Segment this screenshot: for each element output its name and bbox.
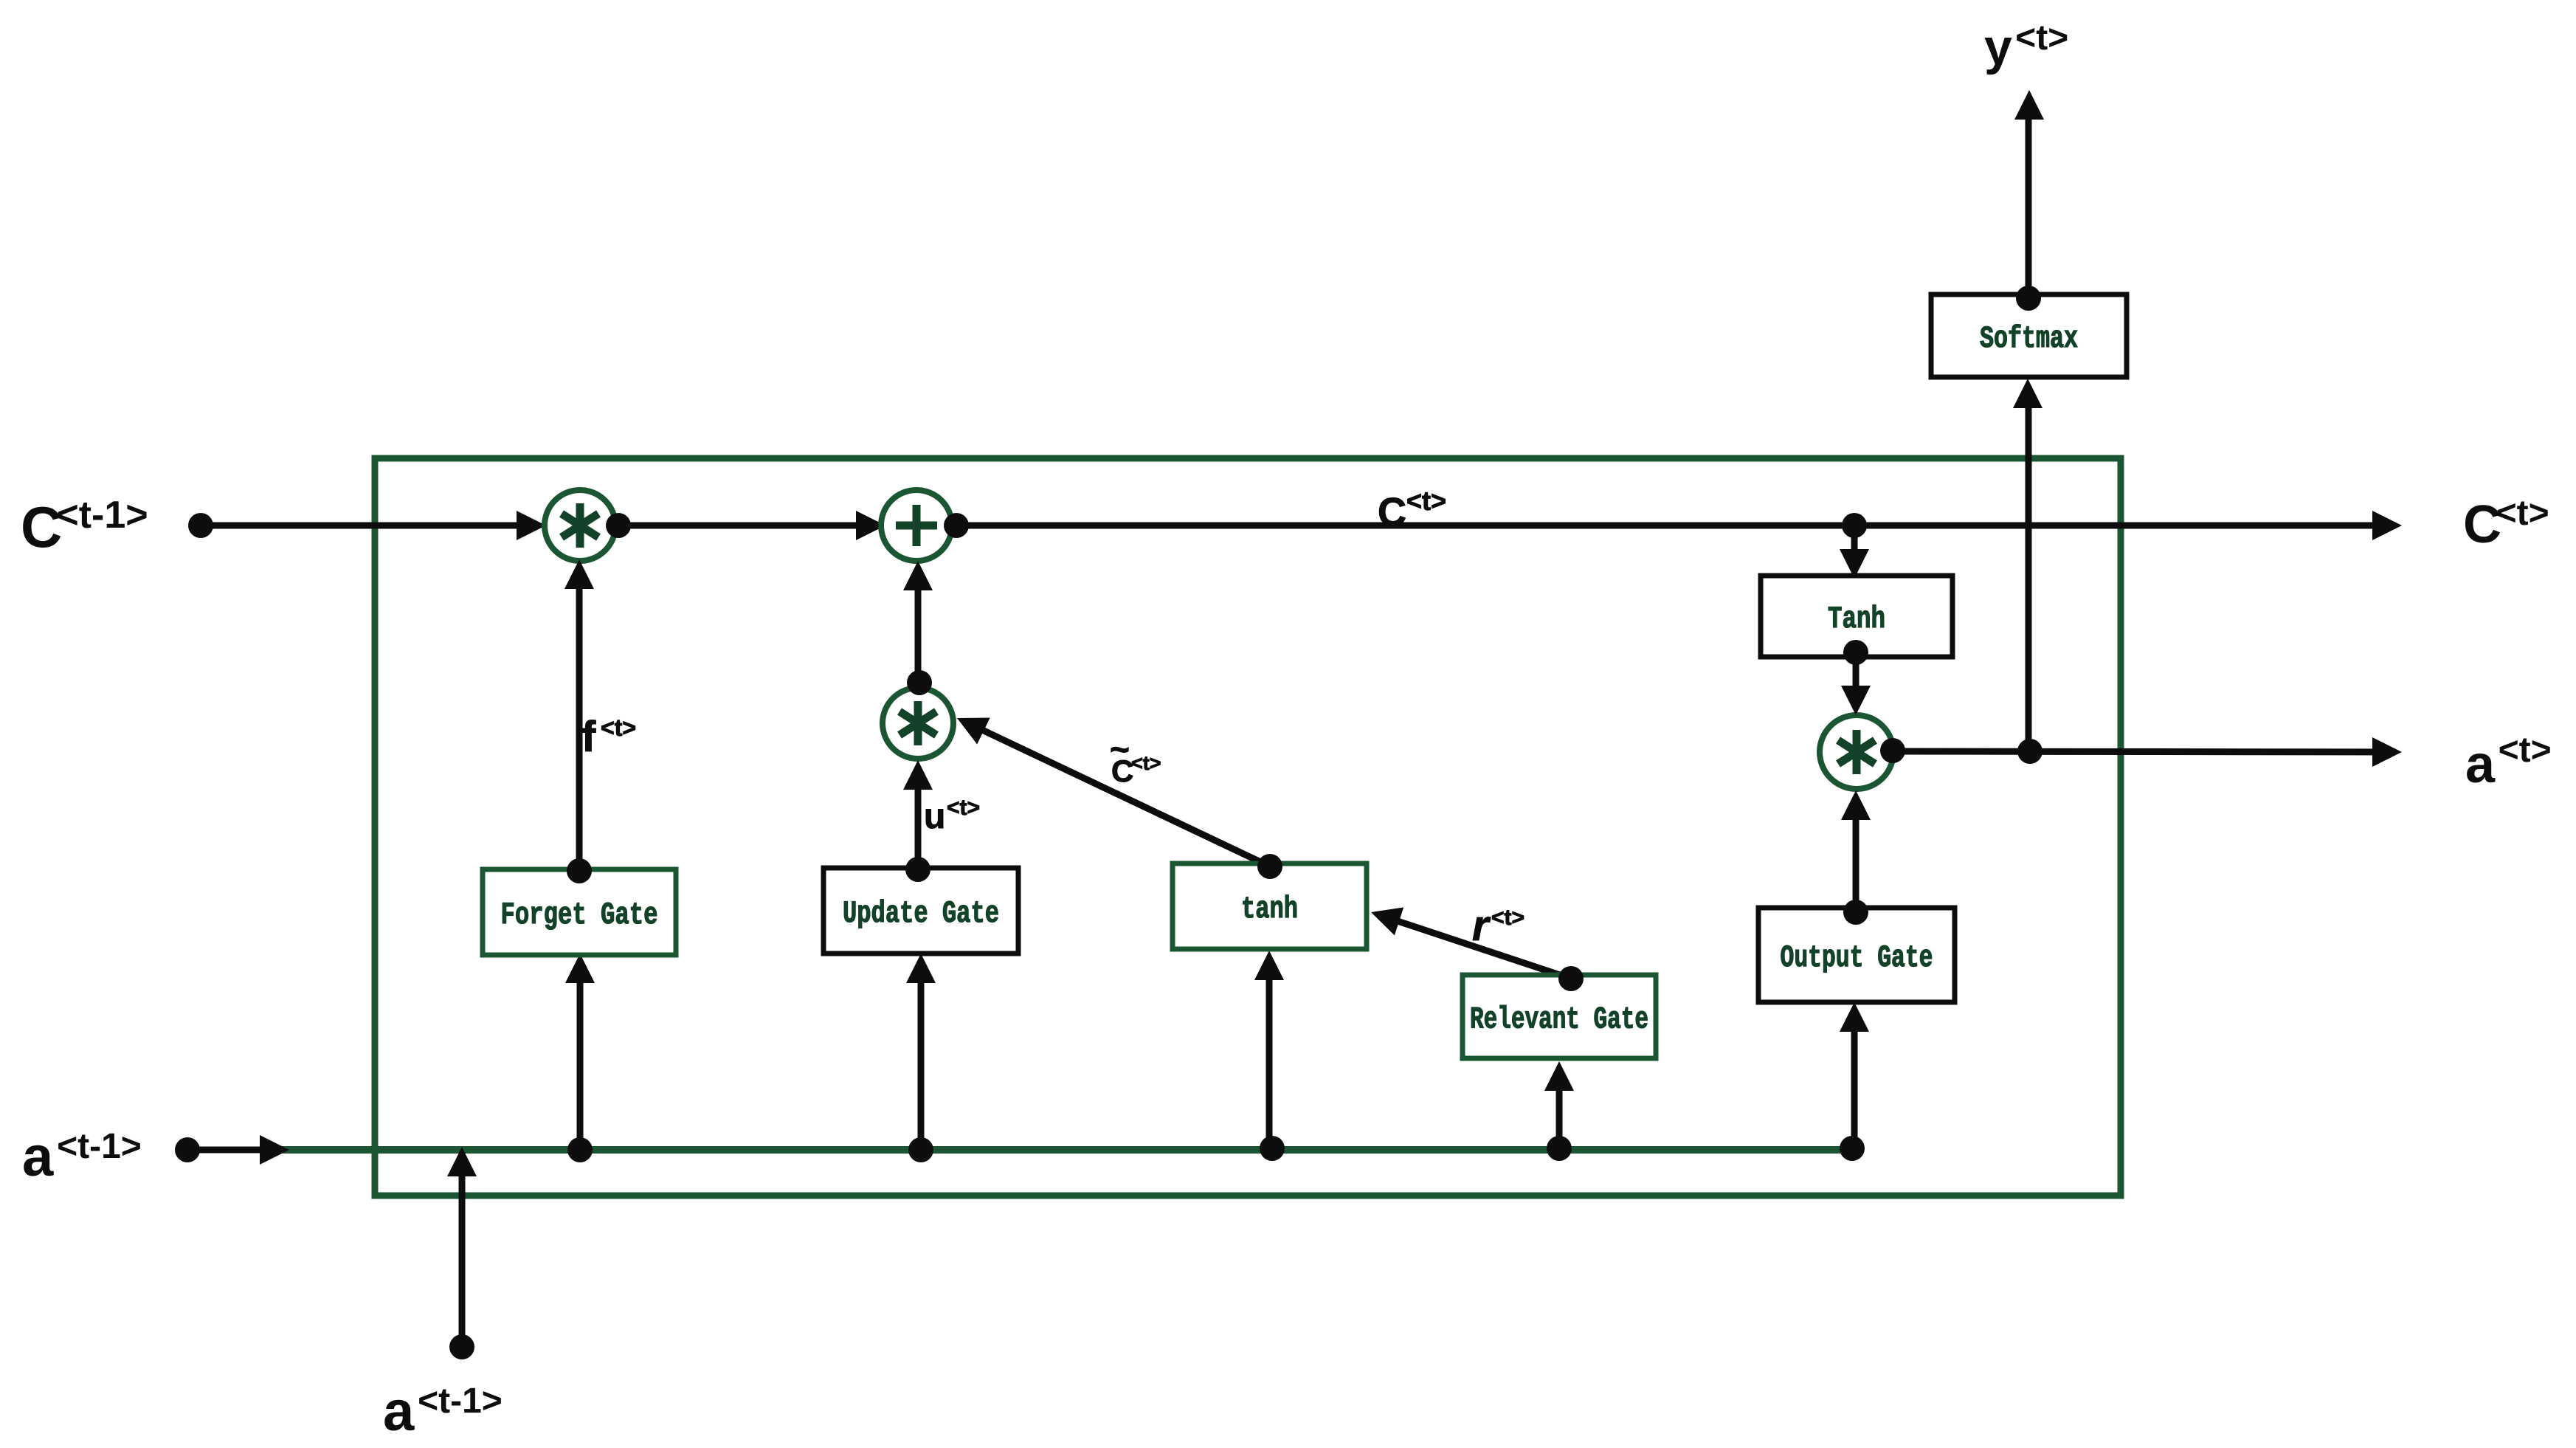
label a<t-1> bottom — [383, 1380, 503, 1443]
box Update Gate — [823, 868, 1018, 954]
junction dot a-bus tanh tap — [1260, 1136, 1285, 1161]
wire update-gate to multiplier-2 — [915, 768, 922, 868]
svg-text:<t>: <t> — [947, 796, 980, 820]
svg-text:<t>: <t> — [1491, 906, 1524, 930]
wire a<t-1> entry — [199, 1147, 260, 1154]
junction dot output-gate top — [1843, 900, 1868, 925]
arrowhead y<t> output — [2014, 90, 2044, 120]
arrowhead into forget-gate — [565, 954, 595, 983]
wire c<t> line — [953, 523, 2393, 529]
junction dot a-bus forget tap — [567, 1137, 593, 1162]
svg-text:<t-1>: <t-1> — [57, 1127, 142, 1166]
label f<t> — [581, 713, 636, 761]
arrowhead into adder bottom — [903, 561, 933, 590]
junction dot multiplier-3 right — [1880, 738, 1905, 763]
svg-text:<t-1>: <t-1> — [56, 494, 148, 537]
wire a to softmax — [2026, 386, 2032, 748]
label a<t> output — [2465, 731, 2552, 794]
svg-text:tanh: tanh — [1241, 892, 1298, 927]
arrowhead into Tanh top — [1840, 549, 1869, 579]
node a<t-1> start — [175, 1137, 200, 1162]
svg-text:u: u — [924, 797, 945, 836]
svg-text:Forget Gate: Forget Gate — [501, 897, 658, 933]
junction dot softmax top — [2016, 286, 2041, 311]
label r<t> — [1472, 902, 1524, 950]
label y<t> — [1984, 18, 2068, 75]
arrowhead into output-gate — [1840, 1002, 1869, 1032]
junction dot tanh top — [1257, 854, 1282, 879]
junction dot a-bus output tap — [1840, 1136, 1865, 1161]
svg-text:Tanh: Tanh — [1828, 601, 1885, 637]
arrowhead into update-gate — [906, 954, 936, 983]
junction dot update-gate top — [905, 857, 930, 882]
wire Tanh to multiplier-3 — [1853, 652, 1860, 706]
wire a-bus to tanh — [1266, 958, 1273, 1147]
arrowhead into tanh right — [1367, 898, 1403, 935]
label u<t> — [924, 796, 980, 836]
wire a-bus to output-gate — [1851, 1010, 1858, 1147]
wire r diagonal — [1380, 915, 1571, 979]
LSTM cell boundary rectangle — [375, 458, 2121, 1196]
svg-text:Relevant Gate: Relevant Gate — [1470, 1002, 1648, 1038]
svg-text:Output Gate: Output Gate — [1781, 940, 1933, 976]
junction dot multiplier-2 top — [907, 670, 932, 695]
arrowhead into multiplier-2 bottom — [903, 760, 933, 790]
arrowhead into multiplier-3 top — [1841, 686, 1871, 715]
wire C-tilde diagonal — [967, 723, 1270, 866]
arrowhead into tanh — [1254, 951, 1284, 980]
arrowhead into softmax bottom — [2013, 379, 2043, 408]
arrowhead a<t-1> entry — [260, 1135, 289, 1165]
arrowhead into multiplier-1 — [517, 511, 546, 540]
wire c to Tanh — [1851, 525, 1858, 570]
svg-text:r: r — [1472, 902, 1491, 950]
svg-text:<t>: <t> — [1406, 486, 1446, 516]
junction dot Tanh bottom — [1843, 640, 1868, 665]
label a<t-1> left — [22, 1125, 142, 1188]
svg-text:<t>: <t> — [601, 714, 636, 741]
operator multiplier-2 (*) — [883, 688, 953, 759]
label C<t> output — [2463, 494, 2549, 554]
wire multiplier-2 to adder — [915, 570, 922, 681]
junction dot a-bus relevant tap — [1547, 1136, 1572, 1161]
box Softmax — [1931, 294, 2127, 377]
wire a<t-1> bottom entry — [459, 1157, 466, 1345]
svg-text:<t>: <t> — [2499, 731, 2552, 770]
arrowhead into multiplier-2 right — [950, 705, 990, 744]
svg-text:a: a — [383, 1380, 415, 1443]
svg-text:Update Gate: Update Gate — [843, 896, 999, 931]
svg-text:<t>: <t> — [2015, 18, 2068, 58]
svg-text:a: a — [2465, 735, 2496, 794]
box Forget Gate — [483, 869, 676, 955]
junction dot adder right — [944, 513, 969, 538]
wire a-bus to update-gate — [918, 961, 925, 1148]
junction dot relevant-gate top — [1558, 966, 1584, 991]
arrowhead C<t> output — [2372, 511, 2402, 540]
svg-text:~: ~ — [1110, 730, 1130, 768]
junction dot c-line Tanh tap — [1842, 513, 1867, 538]
box Relevant Gate — [1463, 975, 1656, 1058]
arrowhead a<t> output — [2372, 737, 2402, 767]
wire a-bus to forget-gate — [577, 961, 584, 1148]
svg-text:<t-1>: <t-1> — [418, 1382, 503, 1421]
junction dot multiplier-1 right — [606, 513, 631, 538]
wire C<t-1> into forget-multiplier — [207, 523, 537, 529]
arrowhead into multiplier-3 bottom — [1841, 790, 1871, 820]
junction dot forget-gate top — [567, 858, 592, 883]
arrowhead into multiplier-1 bottom — [564, 559, 594, 589]
wire softmax to y<t> — [2026, 99, 2032, 298]
svg-text:<t>: <t> — [1131, 752, 1161, 774]
arrowhead a<t-1> bottom entry — [447, 1147, 477, 1176]
svg-text:y: y — [1984, 19, 2012, 75]
operator adder (+) — [881, 490, 952, 561]
label C-tilde<t> — [1110, 730, 1161, 788]
wire a<t> output — [1889, 751, 2393, 752]
box Tanh — [1761, 576, 1952, 657]
wire a-bus to relevant-gate — [1556, 1069, 1563, 1147]
svg-text:<t>: <t> — [2496, 494, 2549, 533]
svg-text:f: f — [581, 713, 596, 761]
junction dot a-bus update tap — [908, 1137, 933, 1162]
box tanh — [1173, 863, 1367, 949]
svg-text:a: a — [22, 1125, 54, 1188]
node a<t-1> bottom start — [449, 1334, 474, 1359]
arrowhead into relevant-gate — [1544, 1061, 1574, 1091]
junction dot a-line softmax tap — [2017, 739, 2043, 764]
wire forget-gate to multiplier-1 — [576, 568, 583, 868]
box Output Gate — [1758, 908, 1955, 1002]
operator multiplier-3 (*) — [1820, 715, 1893, 789]
operator multiplier-1 (*) — [545, 490, 615, 561]
wire multiplier-1 to adder — [618, 523, 877, 529]
node C<t-1> start — [188, 513, 213, 538]
wire a-bus (green) — [269, 1146, 1854, 1154]
label C<t-1> — [21, 494, 148, 559]
arrowhead into adder — [856, 511, 885, 540]
svg-text:C: C — [1378, 490, 1406, 534]
svg-text:Softmax: Softmax — [1980, 321, 2078, 356]
label c<t> on cell line — [1378, 486, 1446, 534]
wire output-gate to multiplier-3 — [1853, 799, 1860, 912]
